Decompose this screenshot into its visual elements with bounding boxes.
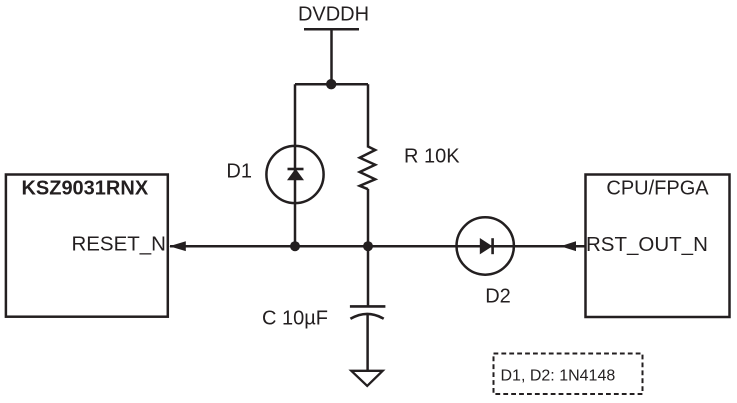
diode D1 cathode bar	[288, 168, 304, 171]
svg-text:D1, D2: 1N4148: D1, D2: 1N4148	[501, 367, 616, 384]
diode D2 triangle	[480, 238, 493, 254]
wire D1 branch vertical	[294, 84, 297, 246]
svg-text:RESET_N: RESET_N	[71, 232, 166, 255]
box CPU/FPGA	[586, 175, 730, 318]
svg-text:CPU/FPGA: CPU/FPGA	[606, 177, 709, 199]
svg-text:D1: D1	[226, 161, 252, 183]
svg-text:RST_OUT_N: RST_OUT_N	[586, 233, 708, 256]
wire capacitor to ground	[366, 315, 369, 371]
power rail DVDDH bar	[304, 28, 359, 31]
junction top	[326, 79, 336, 89]
svg-text:KSZ9031RNX: KSZ9031RNX	[21, 177, 148, 199]
junction reset/D1	[290, 241, 300, 251]
junction reset/R/C	[363, 241, 373, 251]
svg-text:R 10K: R 10K	[404, 146, 460, 168]
svg-text:D2: D2	[485, 286, 511, 308]
diode D2 cathode bar	[491, 238, 494, 254]
svg-text:C 10µF: C 10µF	[262, 308, 328, 330]
svg-text:DVDDH: DVDDH	[298, 4, 369, 26]
wire top branch horizontal	[295, 83, 368, 86]
ground symbol	[351, 371, 382, 386]
diode D1 triangle	[287, 169, 304, 181]
diode D1 circle	[266, 146, 323, 203]
box KSZ9031RNX	[6, 175, 168, 317]
arrowhead into RESET_N	[169, 241, 186, 251]
wire reset net horizontal	[170, 245, 586, 248]
diode D2 circle	[457, 217, 514, 274]
note box D1 D2 1N4148	[494, 354, 643, 395]
capacitor C top plate	[350, 305, 386, 308]
wire resistor branch bottom	[367, 189, 370, 246]
wire resistor branch top	[367, 84, 370, 147]
wire DVDDH stem	[330, 29, 333, 84]
arrowhead from RST_OUT_N	[560, 241, 576, 251]
resistor R 10K	[360, 147, 376, 190]
wire capacitor branch	[367, 246, 370, 306]
capacitor C bottom plate (curved)	[350, 314, 383, 319]
